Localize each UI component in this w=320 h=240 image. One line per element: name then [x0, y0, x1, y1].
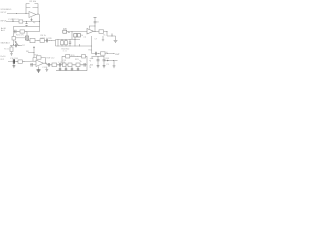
svg-text:R3 2k: R3 2k: [14, 19, 19, 21]
svg-text:L1 R19: L1 R19: [59, 62, 66, 64]
svg-text:1k 1k: 1k 1k: [63, 50, 67, 52]
svg-text:R4 0.1%: R4 0.1%: [16, 35, 24, 37]
svg-text:INPUT: INPUT: [1, 20, 8, 22]
svg-text:1k: 1k: [103, 35, 105, 37]
svg-text:GAIN ADJ: GAIN ADJ: [1, 42, 10, 45]
svg-text:WIDEBAND: WIDEBAND: [1, 8, 12, 11]
svg-text:C10 R16: C10 R16: [10, 58, 19, 60]
svg-text:R5 1k: R5 1k: [4, 49, 9, 51]
svg-text:R18 C12: R18 C12: [47, 57, 56, 59]
svg-text:OUT: OUT: [115, 54, 120, 56]
svg-text:0.1%: 0.1%: [41, 37, 46, 39]
svg-text:5k: 5k: [81, 35, 83, 37]
svg-text:R2 10k: R2 10k: [30, 1, 36, 3]
svg-text:C4 R9: C4 R9: [46, 38, 53, 40]
svg-text:INPUT: INPUT: [1, 12, 8, 14]
